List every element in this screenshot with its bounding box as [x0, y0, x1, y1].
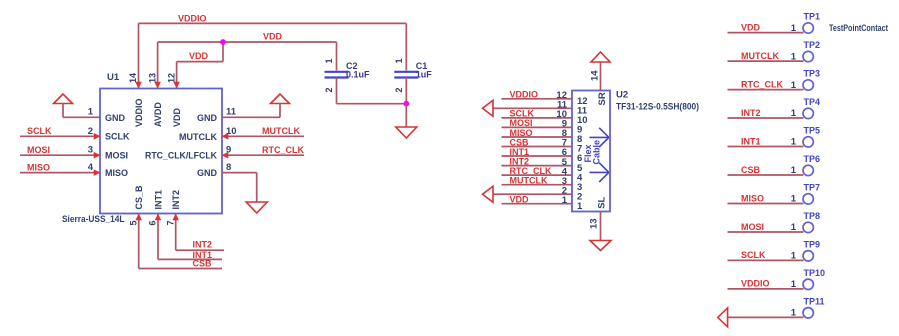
svg-text:10: 10 [226, 126, 237, 137]
svg-text:VDDIO: VDDIO [741, 279, 770, 289]
wire INT1 pin6 [157, 214, 159, 259]
svg-text:13: 13 [589, 218, 600, 229]
svg-text:CS_B: CS_B [134, 185, 144, 210]
svg-text:TP5: TP5 [804, 126, 821, 136]
power symbol (pin1 GND arrow up) [54, 94, 73, 104]
svg-text:TP7: TP7 [804, 183, 821, 193]
pin 12 arrowhead [173, 82, 180, 89]
off-page arrow (TP11) [718, 308, 728, 327]
svg-text:SCLK: SCLK [27, 126, 52, 136]
ground symbol (caps) [396, 127, 417, 138]
flex cable arrow 2 [590, 163, 609, 182]
svg-text:RTC_CLK: RTC_CLK [262, 145, 304, 155]
pin 2 arrowhead [94, 133, 101, 140]
svg-text:MUTCLK: MUTCLK [179, 132, 217, 142]
connector U2 body [572, 91, 610, 212]
svg-text:VDD: VDD [189, 51, 209, 61]
svg-text:1: 1 [324, 58, 334, 63]
svg-text:1: 1 [791, 108, 797, 119]
off-page arrow (pin 2) [483, 186, 494, 202]
svg-text:CSB: CSB [193, 259, 213, 269]
wire U2 pin 9 [502, 126, 573, 128]
wire U2 pin 11 [493, 107, 572, 109]
testpoint TP9 wire [728, 259, 804, 261]
testpoint TP5 wire [728, 146, 804, 148]
svg-text:3: 3 [88, 145, 93, 156]
svg-text:MISO: MISO [27, 162, 50, 172]
wire U2 pin 4 [502, 174, 573, 176]
power symbol (U2 pin14) [591, 52, 610, 62]
testpoint TP7 wire [728, 203, 804, 205]
svg-text:1: 1 [562, 195, 568, 206]
wire pin1 [62, 104, 64, 118]
svg-text:MISO: MISO [105, 168, 128, 178]
C1 bottom stub [405, 78, 407, 104]
svg-text:VDDIO: VDDIO [510, 90, 539, 100]
pin 4 arrowhead [94, 169, 101, 176]
testpoint TP2 contact circle [803, 51, 813, 61]
svg-text:TP3: TP3 [804, 69, 821, 79]
svg-text:TP11: TP11 [804, 296, 825, 306]
svg-text:1: 1 [791, 194, 797, 205]
svg-text:GND: GND [197, 113, 218, 123]
wire SCLK to pin 2 [20, 135, 100, 137]
wire U2 pin 14 stub [600, 62, 602, 91]
svg-text:INT2: INT2 [193, 240, 213, 250]
svg-text:SCLK: SCLK [105, 132, 130, 142]
power symbol (pin11 GND arrow up) [271, 94, 290, 104]
pin 3 arrowhead [94, 152, 101, 159]
svg-text:2: 2 [394, 87, 404, 92]
wire U2 pin 5 [502, 165, 573, 167]
wire U2 pin 8 [502, 136, 573, 138]
wire cap bottoms rail [337, 103, 407, 105]
svg-text:VDDIO: VDDIO [178, 14, 207, 24]
testpoint TP11 contact circle [803, 308, 813, 318]
testpoint TP9 contact circle [803, 251, 813, 261]
junction dot VDD [220, 39, 226, 45]
svg-text:1: 1 [88, 107, 94, 118]
svg-text:1: 1 [791, 165, 797, 176]
svg-text:INT1: INT1 [741, 136, 761, 146]
testpoint TP7 contact circle [803, 194, 813, 204]
svg-text:MISO: MISO [510, 128, 533, 138]
wire pin8 GND to ground [222, 172, 257, 174]
svg-text:1: 1 [791, 51, 797, 62]
svg-text:1: 1 [791, 23, 797, 34]
svg-text:INT2: INT2 [510, 156, 530, 166]
wire U2 pin 10 [502, 117, 573, 119]
svg-text:RTC_CLK: RTC_CLK [741, 79, 783, 89]
svg-text:8: 8 [226, 162, 231, 173]
svg-text:TP8: TP8 [804, 211, 821, 221]
svg-text:MOSI: MOSI [510, 118, 533, 128]
wire U2 pin 13 stub [600, 212, 602, 241]
svg-text:TP4: TP4 [804, 97, 821, 107]
svg-text:VDD: VDD [510, 195, 530, 205]
svg-text:MOSI: MOSI [27, 145, 50, 155]
net VDD wire (pin13/AVDD rail to C2) [158, 41, 337, 43]
svg-text:Sierra-USS_14L: Sierra-USS_14L [62, 214, 125, 224]
svg-text:13: 13 [147, 73, 157, 83]
flex cable arrow 1 [590, 128, 609, 147]
svg-text:12: 12 [166, 73, 176, 83]
svg-text:TP1: TP1 [804, 12, 821, 22]
svg-text:1: 1 [791, 279, 797, 290]
svg-text:TP2: TP2 [804, 40, 821, 50]
svg-text:5: 5 [128, 221, 138, 226]
wire U2 pin 12 [502, 98, 573, 100]
svg-text:INT1: INT1 [510, 147, 530, 157]
svg-text:Cable: Cable [592, 140, 602, 165]
svg-text:1: 1 [791, 222, 797, 233]
svg-text:SCLK: SCLK [741, 250, 766, 260]
svg-text:MISO: MISO [741, 193, 764, 203]
pin 14 arrowhead [135, 82, 142, 89]
svg-text:TP9: TP9 [804, 239, 821, 249]
svg-text:1: 1 [791, 251, 797, 262]
svg-text:9: 9 [226, 145, 231, 156]
testpoint TP8 contact circle [803, 222, 813, 232]
svg-text:MUTCLK: MUTCLK [741, 51, 779, 61]
pin 13 arrowhead [154, 82, 161, 89]
wire U2 pin 6 [502, 155, 573, 157]
svg-text:1: 1 [394, 58, 404, 63]
wire CSB pin5 [138, 214, 140, 269]
pin 5 arrowhead [135, 214, 142, 221]
testpoint TP4 contact circle [803, 108, 813, 118]
testpoint TP3 wire [728, 89, 804, 91]
wire to ground [405, 104, 407, 127]
svg-text:MOSI: MOSI [741, 222, 764, 232]
svg-text:U1: U1 [107, 72, 120, 83]
pin 7 arrowhead [172, 214, 179, 221]
C2 bottom stub [336, 78, 338, 104]
svg-text:GND: GND [197, 168, 218, 178]
wire MOSI to pin 3 [20, 154, 100, 156]
svg-text:2: 2 [88, 126, 93, 137]
svg-text:CSB: CSB [741, 165, 761, 175]
wire RTC_CLK pin9 [222, 154, 304, 156]
svg-text:14: 14 [128, 73, 138, 83]
svg-text:0.1uF: 0.1uF [346, 69, 370, 79]
svg-text:2: 2 [324, 87, 334, 92]
svg-text:INT2: INT2 [741, 108, 761, 118]
svg-text:VDDIO: VDDIO [134, 98, 144, 127]
wire pin11 [222, 116, 280, 118]
testpoint TP6 contact circle [803, 165, 813, 175]
svg-text:MOSI: MOSI [105, 151, 128, 161]
off-page arrow (pin 11) [483, 100, 494, 116]
svg-text:SL: SL [597, 196, 608, 208]
wire U2 pin 7 [502, 146, 573, 148]
wire MISO to pin 4 [20, 172, 100, 174]
net VDDIO wire (pin14 to C1 top rail) [139, 22, 407, 24]
pin 9 arrowhead [222, 152, 229, 159]
junction dot cap rail [403, 101, 409, 107]
svg-text:1: 1 [791, 137, 797, 148]
svg-text:6: 6 [148, 221, 158, 226]
svg-text:SCLK: SCLK [510, 109, 535, 119]
capacitor C1 plates [394, 71, 418, 73]
ground symbol (U2 pin13) [590, 241, 611, 251]
svg-text:TF31-12S-0.5SH(800): TF31-12S-0.5SH(800) [616, 102, 699, 112]
wire INT2 pin7 [175, 214, 177, 250]
pin 10 arrowhead [222, 133, 229, 140]
testpoint TP1 wire [728, 32, 804, 34]
testpoint TP8 wire [728, 231, 804, 233]
testpoint TP3 contact circle [803, 80, 813, 90]
svg-text:U2: U2 [616, 90, 628, 101]
svg-text:11: 11 [226, 107, 237, 118]
testpoint TP10 contact circle [803, 279, 813, 289]
svg-text:4: 4 [88, 162, 94, 173]
wire U2 pin 3 [502, 184, 573, 186]
net VDD wire (pin12 branch) [177, 61, 223, 63]
wire MUTCLK pin10 [222, 135, 304, 137]
IC U1 Sierra-USS_14L body [100, 89, 222, 214]
testpoint TP10 wire [728, 288, 804, 290]
svg-text:7: 7 [165, 221, 175, 226]
svg-text:VDD: VDD [263, 32, 283, 42]
svg-text:TestPointContact: TestPointContact [829, 23, 888, 33]
svg-text:1: 1 [791, 80, 797, 91]
svg-text:1: 1 [791, 308, 797, 319]
svg-text:VDD: VDD [172, 107, 182, 127]
svg-text:1: 1 [577, 201, 583, 212]
wire U2 pin 2 [493, 193, 572, 195]
pin 6 arrowhead [155, 214, 162, 221]
svg-text:TP10: TP10 [804, 268, 826, 278]
svg-text:14: 14 [590, 70, 601, 81]
svg-text:RTC_CLK/LFCLK: RTC_CLK/LFCLK [145, 151, 217, 161]
svg-text:INT2: INT2 [171, 190, 181, 210]
testpoint TP4 wire [728, 117, 804, 119]
capacitor C2 plates [325, 71, 349, 73]
svg-text:CSB: CSB [510, 137, 530, 147]
testpoint TP6 wire [728, 174, 804, 176]
svg-text:1uF: 1uF [416, 69, 433, 79]
ground symbol (pin8) [246, 202, 267, 213]
wire U2 pin 1 [502, 203, 573, 205]
svg-text:RTC_CLK: RTC_CLK [510, 166, 552, 176]
svg-text:SR: SR [597, 92, 608, 105]
svg-text:TP6: TP6 [804, 154, 821, 164]
testpoint TP11 wire [728, 316, 804, 318]
svg-text:AVDD: AVDD [153, 102, 163, 127]
testpoint TP2 wire [728, 60, 804, 62]
testpoint TP1 contact circle [803, 23, 813, 33]
svg-text:VDD: VDD [741, 22, 761, 32]
svg-text:MUTCLK: MUTCLK [262, 126, 300, 136]
svg-text:MUTCLK: MUTCLK [510, 176, 548, 186]
svg-text:INT1: INT1 [153, 190, 163, 210]
svg-text:GND: GND [105, 113, 126, 123]
testpoint TP5 contact circle [803, 137, 813, 147]
